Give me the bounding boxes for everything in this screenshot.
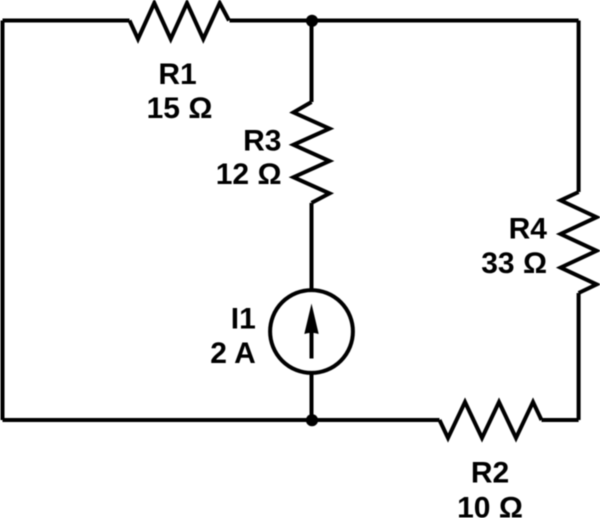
resistor R2 — [440, 402, 542, 438]
svg-text:10 Ω: 10 Ω — [457, 492, 523, 518]
svg-text:2 A: 2 A — [210, 337, 256, 370]
wire bottom segment — [3, 418, 440, 422]
wire middle stub below I1 — [310, 373, 314, 420]
svg-text:15 Ω: 15 Ω — [147, 92, 213, 125]
wire left segment — [1, 21, 5, 421]
svg-text:12 Ω: 12 Ω — [216, 158, 282, 191]
svg-text:R4: R4 — [509, 212, 548, 245]
svg-text:I1: I1 — [231, 302, 256, 335]
wire right upper segment — [577, 21, 581, 193]
wire bottom-right lead — [542, 418, 579, 422]
node top junction — [306, 15, 318, 27]
svg-text:R2: R2 — [471, 456, 509, 489]
current source I1 — [270, 290, 353, 373]
wire right lower segment — [577, 293, 581, 420]
resistor R1 — [130, 3, 230, 39]
current source I1 arrow — [304, 304, 318, 359]
svg-text:33 Ω: 33 Ω — [481, 247, 547, 280]
svg-text:R1: R1 — [158, 58, 196, 91]
wire top-right segment — [230, 19, 579, 23]
wire middle branch upper — [310, 21, 314, 103]
svg-text:R3: R3 — [243, 124, 281, 157]
node bottom junction — [306, 414, 318, 426]
resistor R3 — [294, 102, 330, 203]
wire top-left segment — [3, 19, 130, 23]
wire middle stub above I1 — [310, 203, 314, 292]
resistor R4 — [561, 192, 597, 293]
